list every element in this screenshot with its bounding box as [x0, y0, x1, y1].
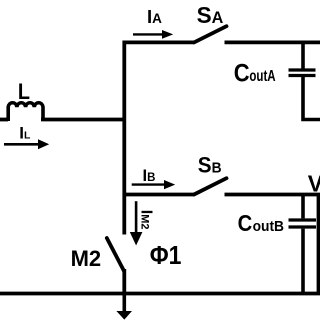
inductor L — [8, 103, 43, 121]
switch SA blade — [194, 26, 227, 42]
switch SB blade — [194, 178, 227, 194]
svg-text:M2: M2 — [71, 246, 102, 271]
capacitor CoutA — [289, 70, 316, 76]
wire: switch SA fixed contact to right — [225, 41, 320, 45]
label L — [18, 80, 30, 104]
arrow IA — [133, 30, 173, 39]
label CoutA — [234, 59, 276, 87]
switch M2 blade — [107, 238, 124, 271]
svg-text:outB: outB — [253, 218, 284, 235]
wire: right edge load line — [317, 195, 320, 296]
ground arrow — [116, 295, 132, 320]
wire: CoutB top lead — [301, 195, 305, 219]
label CoutB — [238, 210, 284, 237]
label Phi1 — [150, 242, 182, 271]
wire: bottom ground rail — [0, 292, 320, 296]
wire: switch SB fixed contact to right — [225, 193, 320, 197]
arrow IM2 — [130, 201, 143, 245]
wire: center vertical bus — [122, 41, 126, 235]
label SA — [197, 2, 224, 28]
wire: CoutA bottom lead to right edge — [303, 77, 320, 120]
wire: inductor to center bus node — [41, 118, 126, 122]
wire: CoutB bottom lead — [301, 229, 305, 295]
svg-text:outA: outA — [249, 66, 275, 84]
wire: M2 lower lead to ground rail — [122, 269, 126, 295]
arrow IL — [4, 139, 49, 149]
wire: input lead from left edge to inductor — [0, 118, 8, 122]
capacitor CoutB — [289, 220, 317, 227]
wire: branch B horizontal to switch pivot — [123, 193, 195, 197]
label SB — [198, 152, 222, 178]
svg-text:Φ1: Φ1 — [150, 242, 182, 271]
label M2 — [71, 246, 102, 271]
wire: branch A horizontal to switch pivot — [123, 41, 195, 45]
svg-text:C: C — [234, 59, 250, 87]
wire: CoutA top lead — [301, 42, 305, 68]
arrow IB — [132, 180, 176, 189]
svg-text:V: V — [308, 170, 320, 196]
svg-text:C: C — [238, 210, 253, 237]
svg-text:L: L — [18, 80, 30, 104]
label IM2 (rotated 90deg) — [137, 210, 154, 230]
